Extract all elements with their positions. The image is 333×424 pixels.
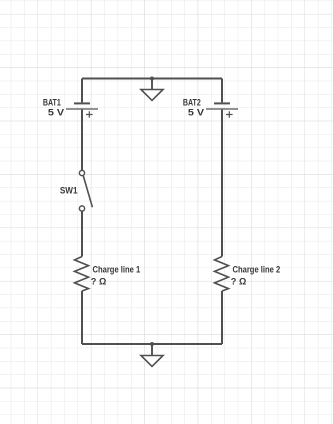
svg-text:5 V: 5 V bbox=[48, 106, 65, 117]
resistor R1 (Charge line 1) bbox=[75, 257, 89, 292]
wire BAT1 to SW1 bbox=[81, 110, 83, 171]
svg-text:5 V: 5 V bbox=[188, 106, 205, 117]
wire SW1 to R1 bbox=[81, 211, 83, 256]
wire top rail bbox=[82, 78, 222, 80]
battery BAT1 bbox=[66, 103, 98, 117]
ground top bbox=[141, 79, 163, 101]
wire BAT2 to R2 bbox=[221, 110, 223, 257]
battery BAT2 bbox=[206, 103, 238, 117]
node top junction bbox=[150, 77, 154, 81]
wire left drop to BAT1 bbox=[81, 79, 83, 103]
svg-text:? Ω: ? Ω bbox=[231, 276, 247, 287]
wire R1 to bottom rail bbox=[81, 291, 83, 344]
svg-text:Charge line 2: Charge line 2 bbox=[233, 264, 281, 274]
svg-text:? Ω: ? Ω bbox=[91, 276, 107, 287]
wire bottom rail bbox=[82, 343, 222, 345]
wire right drop to BAT2 bbox=[221, 79, 223, 103]
svg-text:SW1: SW1 bbox=[60, 185, 78, 196]
wire R2 to bottom rail bbox=[221, 291, 223, 344]
switch SW1 bbox=[79, 170, 92, 211]
ground bottom bbox=[141, 344, 163, 366]
resistor R2 (Charge line 2) bbox=[215, 257, 229, 292]
node bottom junction bbox=[150, 342, 154, 346]
svg-text:Charge line 1: Charge line 1 bbox=[93, 264, 141, 274]
